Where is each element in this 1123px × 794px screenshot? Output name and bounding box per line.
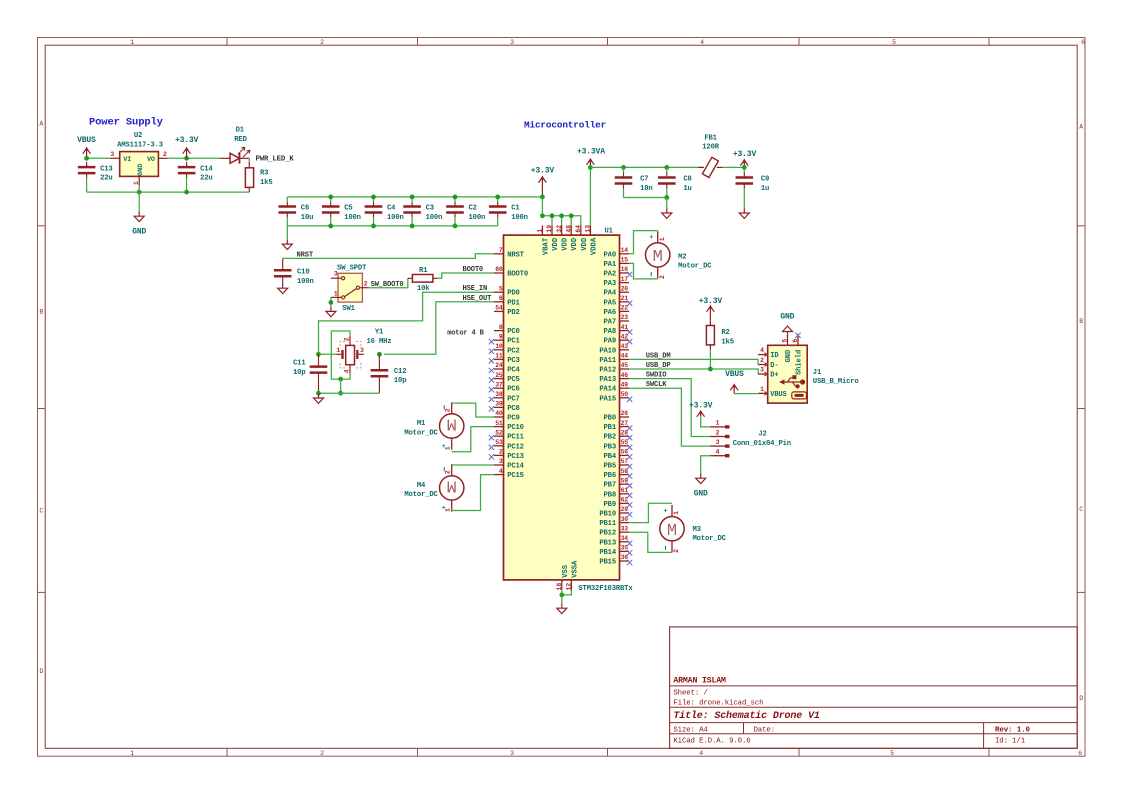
svg-text:STM32F103RBTx: STM32F103RBTx: [578, 585, 633, 593]
svg-text:8: 8: [499, 324, 503, 331]
junction crystal pin1 node: [316, 352, 321, 357]
power symbol +3.3V (J2): [689, 402, 713, 417]
svg-text:PB15: PB15: [599, 559, 616, 567]
svg-text:4: 4: [499, 468, 503, 475]
junction bottom rail: [371, 224, 376, 229]
svg-text:M1: M1: [417, 420, 426, 428]
power symbol +3.3VA: [577, 147, 605, 167]
svg-text:+: +: [664, 508, 668, 515]
wire SW1 to R1: [369, 278, 408, 287]
heading Microcontroller: [524, 120, 606, 131]
wire node to Y1 pin1: [319, 353, 337, 355]
svg-text:NRST: NRST: [507, 251, 524, 259]
svg-text:PB13: PB13: [599, 539, 616, 547]
no-connect marks right: [627, 272, 632, 565]
svg-text:PB4: PB4: [604, 453, 617, 461]
title block: [670, 627, 1078, 748]
svg-text:VDD: VDD: [581, 237, 589, 251]
svg-text:3: 3: [760, 366, 764, 373]
svg-text:C9: C9: [761, 176, 769, 184]
svg-text:45: 45: [621, 362, 629, 369]
junction case loop: [338, 377, 343, 382]
ground GND (MCU): [557, 603, 567, 613]
svg-text:64: 64: [575, 225, 582, 233]
capacitor C8: [658, 167, 692, 197]
net label SW_BOOT0: [371, 281, 404, 289]
ground GND (C8): [662, 208, 672, 218]
svg-text:VO: VO: [147, 156, 155, 164]
svg-text:100n: 100n: [511, 214, 528, 222]
svg-text:VI: VI: [123, 156, 131, 164]
capacitor C9: [736, 167, 770, 208]
wire decoupling bottom rail: [287, 225, 497, 227]
svg-text:5: 5: [890, 750, 894, 757]
svg-text:GND: GND: [785, 350, 793, 363]
svg-text:VDDA: VDDA: [590, 237, 598, 255]
svg-text:Size: A4: Size: A4: [673, 727, 708, 735]
wire M1 pin1 to PC10: [452, 427, 494, 452]
svg-text:+3.3V: +3.3V: [733, 150, 757, 159]
capacitor C12: [371, 354, 407, 393]
svg-text:10p: 10p: [394, 377, 407, 385]
svg-text:M: M: [653, 248, 663, 267]
svg-text:10p: 10p: [293, 369, 306, 377]
wire HSE_OUT: [384, 302, 494, 355]
svg-text:PB12: PB12: [599, 530, 616, 538]
svg-text:C7: C7: [640, 176, 648, 184]
svg-text:PA9: PA9: [604, 338, 617, 346]
wire VBUS to J1: [734, 393, 757, 395]
svg-text:100n: 100n: [469, 214, 486, 222]
svg-text:PB14: PB14: [599, 549, 616, 557]
svg-text:5: 5: [499, 285, 503, 292]
svg-text:PB3: PB3: [604, 443, 617, 451]
svg-text:PC14: PC14: [507, 463, 524, 471]
svg-text:PC6: PC6: [507, 386, 520, 394]
wire C13 bottom: [86, 178, 88, 193]
svg-text:1: 1: [133, 181, 140, 185]
svg-text:5: 5: [892, 39, 896, 46]
svg-text:1u: 1u: [683, 185, 691, 193]
svg-text:52: 52: [495, 429, 503, 436]
svg-text:D: D: [39, 668, 43, 675]
svg-text:+3.3V: +3.3V: [175, 136, 199, 145]
svg-text:D-: D-: [770, 362, 778, 370]
power symbol VBUS: [77, 136, 96, 158]
svg-text:6: 6: [499, 295, 503, 302]
svg-text:23: 23: [621, 314, 629, 321]
svg-text:Date:: Date:: [754, 727, 775, 735]
ground GND (SW1): [326, 307, 336, 317]
svg-text:2: 2: [716, 429, 720, 436]
svg-text:D+: D+: [770, 372, 778, 380]
wire VSS VSSA: [562, 590, 572, 595]
svg-text:3: 3: [360, 347, 364, 354]
ground GND (PSU): [132, 192, 146, 236]
svg-text:1: 1: [334, 290, 338, 297]
svg-text:2: 2: [320, 750, 324, 757]
svg-text:FB1: FB1: [704, 135, 717, 143]
svg-text:AMS1117-3.3: AMS1117-3.3: [117, 142, 163, 150]
svg-text:C14: C14: [200, 165, 213, 173]
svg-text:VBUS: VBUS: [77, 136, 96, 145]
svg-text:C13: C13: [100, 165, 113, 173]
svg-text:12: 12: [566, 583, 573, 591]
wire USB_DP: [629, 369, 758, 374]
junction R2 USB_DP: [708, 367, 713, 372]
svg-text:M4: M4: [417, 482, 426, 490]
capacitor C3: [403, 197, 442, 226]
svg-text:GND: GND: [694, 489, 708, 498]
svg-text:HSE_OUT: HSE_OUT: [463, 295, 493, 303]
net label USB_DP: [646, 362, 671, 370]
svg-text:+3.3V: +3.3V: [699, 297, 723, 306]
motor M3 Motor_DC: [660, 505, 727, 553]
svg-text:PA10: PA10: [599, 347, 616, 355]
wire M4 pin2 to PC14: [452, 464, 494, 466]
svg-text:C2: C2: [469, 205, 477, 213]
svg-text:Motor_DC: Motor_DC: [678, 263, 712, 271]
net label SWCLK: [646, 381, 667, 389]
svg-text:PC15: PC15: [507, 472, 524, 480]
wire C8 to GND: [666, 198, 668, 209]
ground GND (C6): [282, 239, 292, 249]
wire VDDA up: [589, 167, 591, 225]
mcu U1 bottom pins: [556, 560, 579, 591]
junction bottom rail: [453, 224, 458, 229]
wire VSS to GND: [561, 595, 563, 604]
svg-text:26: 26: [621, 410, 629, 417]
svg-text:+3.3VA: +3.3VA: [577, 147, 605, 156]
svg-text:+: +: [649, 234, 653, 241]
svg-text:2: 2: [320, 39, 324, 46]
svg-text:PA3: PA3: [604, 280, 617, 288]
svg-text:2: 2: [760, 357, 764, 364]
svg-text:PD2: PD2: [507, 309, 520, 317]
wire J2 pin1: [701, 416, 710, 427]
svg-text:PB2: PB2: [604, 434, 617, 442]
svg-text:PB8: PB8: [604, 491, 617, 499]
svg-text:10n: 10n: [640, 185, 653, 193]
svg-text:J2: J2: [758, 431, 766, 439]
svg-text:A: A: [1079, 123, 1083, 130]
wire D1 to R3: [248, 158, 250, 162]
svg-text:PA14: PA14: [599, 386, 616, 394]
svg-text:PC12: PC12: [507, 443, 524, 451]
junction C9: [742, 165, 747, 170]
svg-text:2: 2: [673, 549, 680, 553]
svg-text:U2: U2: [134, 132, 142, 140]
usb connector J1 USB_B_Micro: [758, 333, 859, 403]
wire NRST: [283, 254, 494, 259]
svg-text:1u: 1u: [761, 185, 769, 193]
no-connect marks left: [489, 339, 494, 460]
ground GND (C10): [278, 283, 288, 293]
svg-text:+3.3V: +3.3V: [689, 402, 713, 411]
svg-text:C6: C6: [301, 205, 309, 213]
svg-text:Rev: 1.0: Rev: 1.0: [995, 727, 1030, 735]
wire FB1 to C9: [723, 166, 745, 168]
svg-text:4: 4: [344, 369, 351, 373]
svg-text:22u: 22u: [100, 175, 113, 183]
power symbol VBUS (J1): [725, 370, 744, 393]
net label BOOT0: [463, 266, 484, 274]
wire PA0 to M2 pin1: [629, 231, 658, 254]
svg-text:1: 1: [445, 446, 452, 450]
resistor R2 1k5: [706, 320, 734, 349]
svg-text:ARMAN ISLAM: ARMAN ISLAM: [673, 676, 726, 685]
svg-text:B: B: [39, 308, 43, 315]
svg-text:19: 19: [546, 225, 553, 233]
junction crystal pin3 node: [377, 352, 382, 357]
capacitor C14: [178, 162, 214, 183]
svg-text:C12: C12: [394, 368, 407, 376]
svg-text:NRST: NRST: [297, 251, 314, 259]
svg-text:PC9: PC9: [507, 415, 520, 423]
svg-text:24: 24: [495, 362, 503, 369]
svg-text:R2: R2: [721, 329, 729, 337]
wire M4 pin1 to PC15: [452, 475, 494, 511]
svg-text:25: 25: [495, 372, 503, 379]
svg-text:C: C: [1079, 506, 1083, 513]
svg-text:2: 2: [163, 151, 167, 158]
svg-text:10u: 10u: [301, 214, 314, 222]
svg-text:Y1: Y1: [375, 328, 384, 336]
net label motor 4 B: [447, 330, 484, 338]
svg-text:PC11: PC11: [507, 434, 524, 442]
svg-text:120R: 120R: [702, 143, 719, 151]
net label PWR_LED_K: [256, 156, 295, 164]
wire M3 pin2 to PB12: [629, 532, 672, 552]
svg-text:PC7: PC7: [507, 395, 520, 403]
junction bottom rail: [410, 224, 415, 229]
svg-text:44: 44: [621, 353, 629, 360]
wire USB_DM: [629, 359, 758, 364]
power symbol +3.3V (R2): [699, 297, 723, 320]
svg-text:PWR_LED_K: PWR_LED_K: [256, 156, 295, 164]
svg-text:PC13: PC13: [507, 453, 524, 461]
junction bottom rail: [328, 224, 333, 229]
svg-text:1: 1: [659, 237, 666, 241]
svg-text:PC8: PC8: [507, 405, 520, 413]
svg-text:100n: 100n: [297, 278, 314, 286]
svg-text:C1: C1: [511, 205, 520, 213]
svg-text:11: 11: [495, 353, 503, 360]
connector J2 Conn_01x04_Pin: [710, 420, 791, 456]
svg-text:PB7: PB7: [604, 482, 617, 490]
svg-text:PA12: PA12: [599, 367, 616, 375]
junction C8 gnd: [664, 195, 669, 200]
svg-text:PB0: PB0: [604, 415, 617, 423]
svg-text:Motor_DC: Motor_DC: [693, 535, 727, 543]
svg-text:C10: C10: [297, 268, 310, 276]
svg-text:37: 37: [495, 381, 503, 388]
svg-text:PC10: PC10: [507, 424, 524, 432]
wire R2 to USB_DP: [709, 350, 711, 369]
svg-text:BOOT0: BOOT0: [507, 271, 528, 279]
svg-text:2: 2: [499, 449, 503, 456]
svg-text:2: 2: [364, 281, 368, 288]
svg-text:2: 2: [344, 337, 351, 341]
svg-text:PC0: PC0: [507, 328, 520, 336]
svg-text:VDD: VDD: [552, 237, 560, 251]
net label HSE_IN: [463, 285, 488, 293]
svg-text:32: 32: [556, 225, 563, 233]
svg-text:1: 1: [537, 229, 544, 233]
svg-text:Power Supply: Power Supply: [89, 117, 164, 129]
ground GND (J2): [694, 473, 708, 498]
svg-text:48: 48: [565, 225, 572, 233]
svg-text:VBAT: VBAT: [542, 237, 550, 255]
svg-text:B: B: [1079, 318, 1083, 325]
svg-text:M: M: [447, 414, 457, 433]
svg-text:PD1: PD1: [507, 299, 520, 307]
led D1 RED: [220, 127, 250, 164]
svg-text:1: 1: [130, 750, 134, 757]
svg-text:PA15: PA15: [599, 395, 616, 403]
junction VDDA rail: [588, 165, 593, 170]
svg-text:A: A: [39, 121, 43, 128]
svg-text:10: 10: [495, 343, 503, 350]
svg-text:PA4: PA4: [604, 290, 617, 298]
svg-text:C3: C3: [426, 205, 434, 213]
svg-text:PC4: PC4: [507, 367, 520, 375]
svg-text:GND: GND: [137, 164, 145, 176]
svg-text:GND: GND: [780, 313, 794, 322]
wire HSE_IN: [319, 292, 495, 354]
svg-text:53: 53: [495, 439, 503, 446]
switch SW1 SW_SPDT: [331, 265, 369, 314]
svg-text:16 MHz: 16 MHz: [367, 338, 392, 346]
motor M1 Motor_DC: [404, 402, 464, 450]
svg-text:Id: 1/1: Id: 1/1: [995, 737, 1026, 745]
junction C7: [621, 165, 626, 170]
svg-text:6: 6: [1078, 750, 1082, 757]
mcu U1 left pins: [494, 247, 528, 480]
wire crystal gnd rail: [319, 392, 380, 394]
svg-text:2: 2: [445, 470, 452, 474]
svg-text:33: 33: [621, 525, 629, 532]
mcu U1 body: [504, 227, 634, 593]
svg-text:VDD: VDD: [571, 237, 579, 251]
capacitor C7: [615, 167, 653, 197]
svg-text:PA11: PA11: [599, 357, 616, 365]
net label NRST: [297, 251, 314, 259]
svg-text:VBUS: VBUS: [725, 370, 744, 379]
net label USB_DM: [646, 352, 671, 360]
svg-text:18: 18: [556, 583, 563, 591]
svg-text:C8: C8: [683, 176, 691, 184]
wire C7 C8 gnd: [624, 197, 667, 199]
wire R1 to BOOT0: [437, 273, 494, 278]
svg-text:1k5: 1k5: [260, 179, 273, 187]
crystal Y1 16MHz: [336, 328, 391, 373]
svg-text:100n: 100n: [387, 214, 404, 222]
net label HSE_OUT: [463, 295, 493, 303]
svg-text:7: 7: [499, 247, 503, 254]
svg-text:PC3: PC3: [507, 357, 520, 365]
regulator U2 AMS1117-3.3: [110, 132, 167, 186]
svg-text:File: drone.kicad_sch: File: drone.kicad_sch: [673, 699, 763, 707]
junction top rail: [410, 195, 415, 200]
wire +3.3VA rail: [590, 166, 703, 168]
junction C11 gnd: [316, 391, 321, 396]
wire crystal case loop: [331, 331, 350, 379]
svg-text:PB6: PB6: [604, 472, 617, 480]
junction C14 rail: [184, 190, 189, 195]
svg-text:C11: C11: [293, 360, 306, 368]
wire SW1 pin1 to GND: [330, 297, 332, 306]
svg-text:PB10: PB10: [599, 511, 616, 519]
svg-text:PB9: PB9: [604, 501, 617, 509]
svg-text:6: 6: [792, 339, 799, 343]
svg-text:C5: C5: [344, 205, 352, 213]
svg-text:VBUS: VBUS: [770, 391, 786, 399]
svg-text:1k5: 1k5: [721, 339, 734, 347]
svg-text:60: 60: [495, 266, 503, 273]
svg-text:D1: D1: [236, 127, 245, 135]
svg-text:R1: R1: [419, 267, 428, 275]
svg-text:54: 54: [495, 305, 503, 312]
svg-text:C4: C4: [387, 205, 396, 213]
mcu U1 top pins: [537, 225, 599, 255]
junction VBUS C13: [84, 156, 89, 161]
svg-text:14: 14: [621, 247, 629, 254]
svg-text:USB_B_Micro: USB_B_Micro: [813, 378, 859, 386]
capacitor C1: [489, 197, 528, 226]
capacitor C6: [279, 197, 314, 226]
wire PB11 to M3 pin1: [629, 503, 672, 522]
junction top rail: [371, 195, 376, 200]
wire +3V3 top rail: [287, 196, 542, 198]
resistor R1 10k: [408, 267, 438, 293]
svg-text:M3: M3: [693, 526, 701, 534]
svg-text:PC1: PC1: [507, 338, 520, 346]
svg-text:46: 46: [621, 372, 629, 379]
junction +3.3V C14: [184, 156, 189, 161]
junction case gnd rail: [338, 391, 343, 396]
svg-text:38: 38: [495, 391, 503, 398]
svg-text:15: 15: [621, 257, 629, 264]
svg-text:Shield: Shield: [796, 350, 804, 375]
svg-text:1: 1: [445, 508, 452, 512]
wire M2 pin2 to PA1: [629, 263, 658, 279]
svg-text:VDD: VDD: [562, 237, 570, 251]
wire J2 pin4 to GND: [701, 456, 710, 474]
svg-text:Sheet: /: Sheet: /: [673, 690, 708, 698]
svg-text:3: 3: [510, 39, 514, 46]
svg-text:1: 1: [760, 386, 764, 393]
svg-text:BOOT0: BOOT0: [463, 266, 484, 274]
svg-text:39: 39: [495, 401, 503, 408]
svg-text:PA6: PA6: [604, 309, 617, 317]
wire SWDIO: [629, 379, 710, 437]
svg-text:13: 13: [585, 225, 592, 233]
svg-text:3: 3: [110, 151, 114, 158]
svg-text:ID: ID: [770, 352, 778, 360]
junction top rail: [328, 195, 333, 200]
svg-text:51: 51: [495, 420, 503, 427]
svg-text:+3.3V: +3.3V: [531, 167, 555, 176]
svg-text:SW1: SW1: [342, 305, 355, 313]
svg-text:Microcontroller: Microcontroller: [524, 120, 606, 131]
svg-text:motor 4 B: motor 4 B: [447, 330, 484, 338]
power symbol +3.3V (MCU): [531, 167, 555, 197]
svg-text:49: 49: [621, 381, 629, 388]
junction VSS: [559, 593, 564, 598]
svg-text:4: 4: [700, 39, 704, 46]
svg-text:1: 1: [673, 511, 680, 515]
